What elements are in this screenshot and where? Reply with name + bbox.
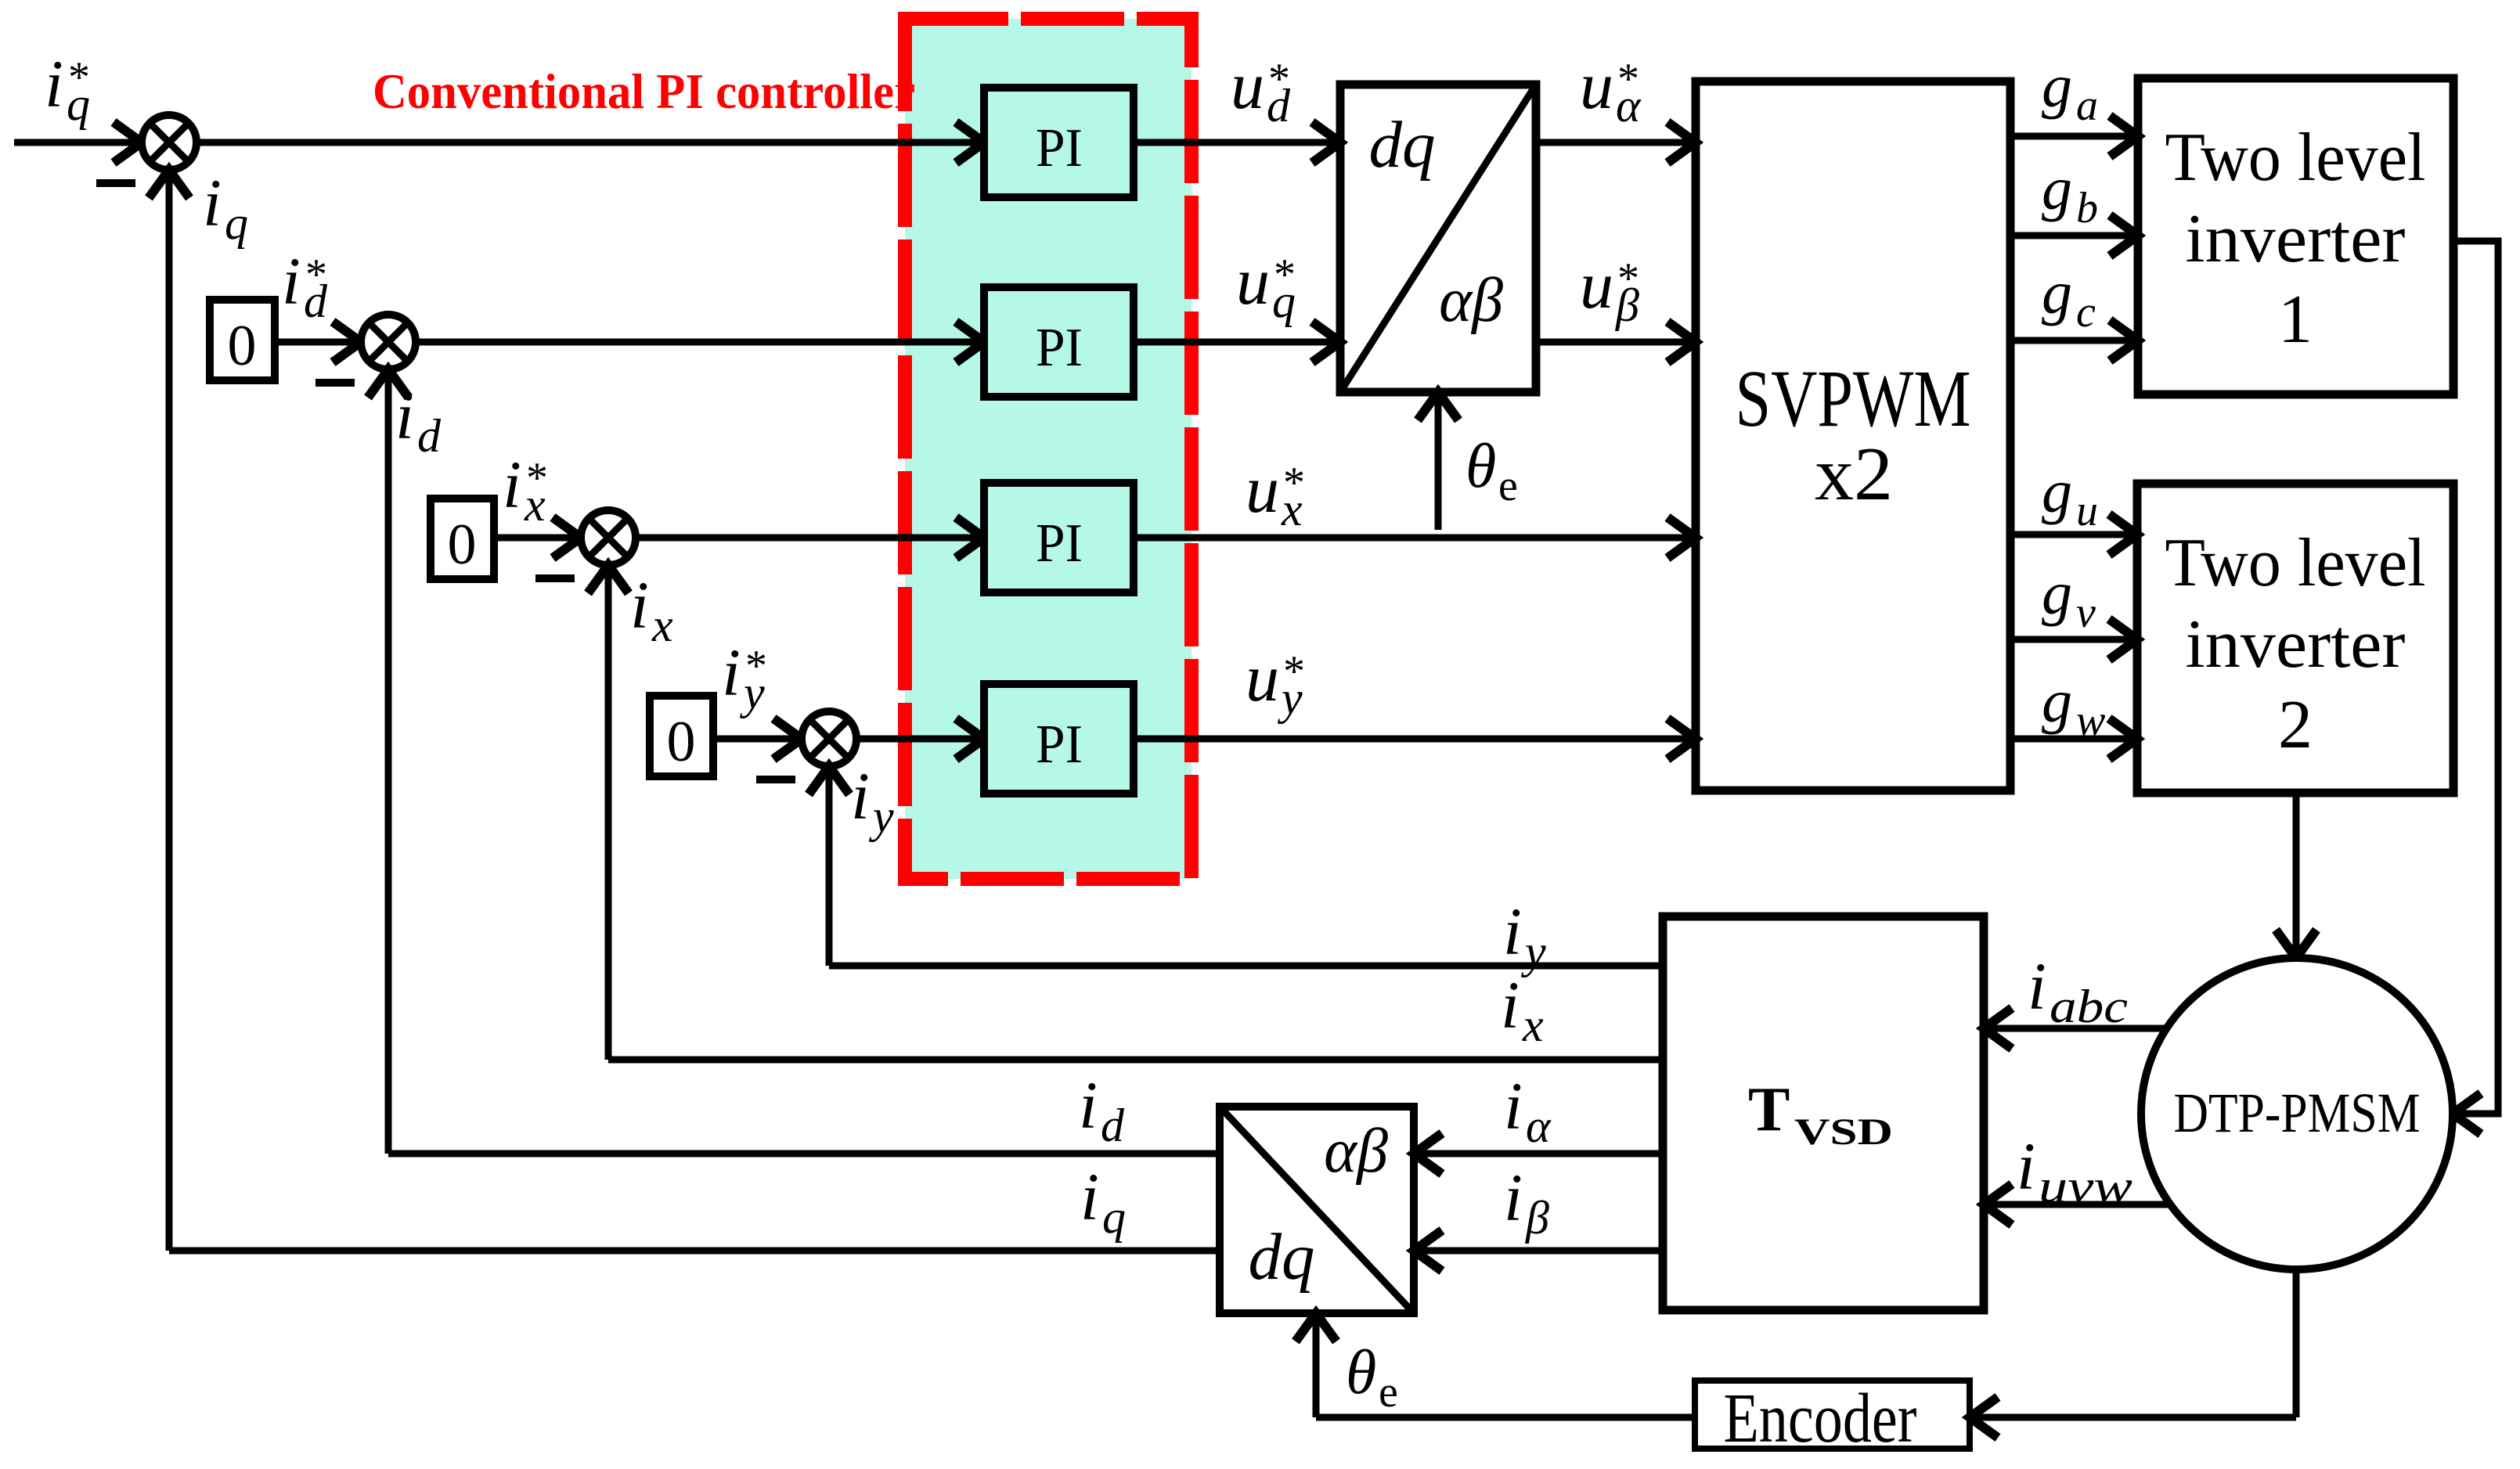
svg-text:g: g (2042, 667, 2072, 735)
arrowhead uy* into SVPWM (1667, 718, 1696, 759)
svg-text:x2: x2 (1815, 432, 1893, 517)
wire ix feedback vertical (605, 565, 612, 1060)
label ux* (1246, 452, 1305, 535)
label uy* (1246, 640, 1305, 724)
svg-text:αβ: αβ (1439, 266, 1503, 335)
text T VSD (1748, 1075, 1893, 1153)
diagonal of dq block (1340, 85, 1536, 392)
svg-text:dq: dq (1369, 108, 1436, 182)
wire encoder to theta-e riser (1316, 1414, 1695, 1421)
svg-text:u: u (1246, 452, 1279, 527)
SVPWM x2 block (1696, 81, 2010, 790)
wire S3 to PI3 (636, 535, 984, 542)
conventional PI controller region (teal box, red dashed border) (905, 19, 1192, 879)
label ibeta (1504, 1160, 1549, 1244)
arrowhead gc into inverter 1 (2110, 320, 2138, 361)
arrowhead ud* into dq block (1312, 122, 1340, 163)
arrowhead ubeta* into SVPWM (1667, 322, 1696, 362)
wire iq* input (14, 139, 142, 146)
arrowhead into S4 (773, 718, 802, 759)
svg-text:g: g (2042, 52, 2072, 120)
svg-text:a: a (2076, 81, 2098, 130)
svg-text:α: α (1526, 1100, 1552, 1152)
svg-text:i: i (1079, 1068, 1098, 1143)
label ialpha (1504, 1068, 1552, 1152)
svg-text:b: b (2076, 184, 2098, 232)
svg-text:d: d (1101, 1100, 1125, 1151)
arrowhead into PI1 (956, 122, 984, 163)
label ga (2042, 52, 2098, 130)
summing junction S3 (x axis) (581, 510, 636, 565)
DTP-PMSM machine circle (2141, 958, 2453, 1269)
label ix (TVSD out) (1501, 967, 1544, 1051)
alpha-beta to dq transform block (1220, 1107, 1414, 1313)
svg-text:i: i (2017, 1129, 2035, 1204)
svg-text:g: g (2042, 154, 2072, 222)
svg-text:β: β (1525, 1192, 1549, 1244)
arrowhead ialpha into ab-dq block (1414, 1133, 1442, 1174)
summing junction S2 (d axis) (361, 315, 416, 369)
wire S2 to PI2 (416, 339, 984, 346)
svg-text:y: y (739, 667, 765, 718)
svg-text:dq: dq (1249, 1220, 1315, 1294)
svg-text:i: i (395, 378, 414, 453)
arrowhead into PI3 (956, 517, 984, 558)
svg-text:i: i (1503, 894, 1522, 969)
label gb (2042, 154, 2098, 232)
label ix feedback (630, 567, 673, 651)
label gv (2042, 559, 2096, 637)
svg-text:w: w (2076, 697, 2105, 745)
wire iq ab-dq block to feedback vertical (169, 1248, 1220, 1255)
label uq* (1236, 243, 1296, 327)
wire PI4 to SVPWM (uy*) (1134, 736, 1696, 743)
PI controller block PI3 (984, 483, 1134, 592)
svg-text:i: i (1080, 1159, 1099, 1234)
wire inverter 1 output feedback (right side, down to motor) (2453, 241, 2498, 1114)
svg-text:αβ: αβ (1324, 1117, 1388, 1186)
wire gb SVPWM to inverter 1 (2010, 232, 2138, 239)
svg-text:i: i (1501, 967, 1520, 1042)
svg-text:PI: PI (1036, 118, 1083, 178)
svg-text:v: v (2076, 589, 2096, 637)
wire theta-e riser to ab-dq block (1313, 1313, 1320, 1417)
wire iy feedback vertical (826, 766, 833, 966)
svg-text:e: e (1379, 1368, 1398, 1417)
svg-text:i: i (630, 567, 649, 643)
label gc (2042, 258, 2096, 337)
svg-text:i: i (2028, 949, 2046, 1024)
arrowhead uq* into dq block (1312, 322, 1340, 362)
wire gc SVPWM to inverter 1 (2010, 337, 2138, 344)
wire PI3 to SVPWM (ux*) (1134, 535, 1696, 542)
svg-text:VSD: VSD (1794, 1111, 1893, 1153)
svg-text:1: 1 (2278, 282, 2313, 358)
diagonal of ab-dq block (1220, 1107, 1414, 1313)
svg-text:u: u (1246, 640, 1279, 715)
wire iq feedback vertical (166, 170, 173, 1251)
arrowhead theta-e into dq block (1418, 392, 1458, 420)
label iy (TVSD out) (1503, 894, 1546, 978)
label theta-e (bottom) (1346, 1338, 1398, 1417)
label id feedback (395, 378, 442, 462)
svg-text:q: q (1102, 1191, 1126, 1243)
label theta-e (top) (1465, 432, 1518, 510)
wire S4 to PI4 (856, 736, 984, 743)
arrowhead id into S2 (368, 369, 409, 398)
label ualpha* (1580, 48, 1642, 131)
arrowhead ualpha* into SVPWM (1667, 122, 1696, 163)
two level inverter 2 block (2137, 484, 2453, 793)
svg-text:PI: PI (1036, 513, 1083, 574)
wire id feedback vertical (385, 369, 392, 1154)
svg-text:i: i (282, 243, 301, 319)
arrowhead ga into inverter 1 (2110, 116, 2138, 157)
arrowhead ix into S3 (588, 565, 629, 593)
wire ibeta TVSD to ab-dq block (1414, 1248, 1663, 1255)
svg-text:Conventional PI controller: Conventional PI controller (373, 63, 915, 119)
arrowhead ibeta into ab-dq block (1414, 1230, 1442, 1271)
wire dq block to SVPWM (ualpha*) (1536, 139, 1696, 146)
svg-text:y: y (868, 790, 894, 842)
svg-text:i: i (722, 635, 741, 710)
wire 0-box to S4 (713, 736, 802, 743)
svg-text:x: x (1281, 484, 1303, 535)
svg-text:inverter: inverter (2186, 607, 2406, 682)
summing junction S1 (q axis) (142, 115, 196, 170)
svg-text:g: g (2042, 258, 2072, 326)
svg-text:g: g (2042, 457, 2072, 525)
wire ialpha TVSD to ab-dq block (1414, 1150, 1663, 1158)
svg-text:g: g (2042, 559, 2072, 627)
svg-text:inverter: inverter (2186, 201, 2406, 277)
svg-text:u: u (1580, 48, 1613, 123)
arrowhead iq into S1 (149, 170, 189, 198)
svg-text:i: i (45, 46, 63, 121)
label id (out) (1079, 1068, 1125, 1151)
arrowhead gw into inverter 2 (2109, 718, 2137, 759)
label id* reference (282, 243, 328, 327)
arrowhead gu into inverter 2 (2109, 514, 2137, 555)
arrowhead into PI2 (956, 322, 984, 362)
label gw (2042, 667, 2105, 745)
wire iy TVSD to S4 feedback (829, 963, 1663, 970)
label iabc (2028, 949, 2128, 1032)
wire motor bottom to encoder row (2293, 1269, 2300, 1417)
label iuvw (2017, 1129, 2132, 1212)
svg-text:θ: θ (1465, 432, 1496, 501)
svg-text:x: x (651, 599, 673, 651)
svg-text:x: x (524, 479, 546, 531)
svg-text:u: u (2076, 487, 2098, 535)
wire dq block to SVPWM (ubeta*) (1536, 339, 1696, 346)
wire ga SVPWM to inverter 1 (2010, 133, 2138, 140)
minus sign at S2 (315, 379, 355, 387)
svg-text:u: u (1236, 243, 1270, 319)
arrowhead ux* into SVPWM (1667, 517, 1696, 558)
svg-text:uvw: uvw (2039, 1161, 2132, 1212)
wire id ab-dq block to feedback vertical (388, 1150, 1220, 1158)
arrowhead iy into S4 (809, 766, 849, 794)
svg-text:0: 0 (667, 710, 696, 774)
label ix* reference (503, 447, 548, 531)
wire 0-box to S3 (494, 535, 581, 542)
svg-text:i: i (1504, 1068, 1523, 1143)
wire ix TVSD to S3 feedback (608, 1057, 1663, 1064)
arrowhead into S1 (114, 122, 142, 163)
wire gv SVPWM to inverter 2 (2010, 636, 2137, 643)
summing junction S4 (y axis) (802, 711, 856, 766)
svg-text:u: u (1231, 48, 1264, 123)
svg-text:e: e (1498, 462, 1518, 510)
TVSD transform block (1663, 916, 1984, 1310)
label iy* reference (722, 635, 767, 718)
PI controller block PI1 (984, 88, 1134, 197)
arrowhead into motor top (2276, 930, 2316, 958)
arrowhead into PI4 (956, 718, 984, 759)
svg-text:i: i (1504, 1160, 1523, 1235)
svg-text:T: T (1748, 1075, 1790, 1144)
minus sign at S4 (756, 776, 795, 783)
wire motor to encoder (1970, 1414, 2296, 1421)
svg-text:y: y (1277, 672, 1303, 724)
zero reference box (y axis) (650, 696, 713, 776)
wire gu SVPWM to inverter 2 (2010, 531, 2137, 538)
svg-text:q: q (67, 78, 90, 130)
svg-text:d: d (304, 275, 328, 327)
wire iabc motor to TVSD (1984, 1025, 2168, 1032)
arrowhead into S3 (553, 517, 581, 558)
label iq* reference (45, 46, 90, 130)
encoder block (1695, 1381, 1970, 1449)
wire PI2 to dq block (1134, 339, 1340, 346)
wire gw SVPWM to inverter 2 (2010, 736, 2137, 743)
arrowhead iabc into TVSD (1984, 1008, 2012, 1049)
label ubeta* (1580, 247, 1639, 331)
label gu (2042, 457, 2098, 535)
label iq (out) (1080, 1159, 1126, 1243)
arrowhead gv into inverter 2 (2109, 619, 2137, 660)
label iy feedback (851, 758, 894, 842)
arrowhead into encoder (1970, 1397, 1998, 1438)
svg-text:0: 0 (448, 513, 477, 577)
svg-text:q: q (225, 197, 248, 249)
svg-text:PI: PI (1036, 318, 1083, 378)
wire PI1 to dq block (1134, 139, 1340, 146)
svg-text:x: x (1522, 999, 1544, 1051)
svg-text:i: i (503, 447, 521, 522)
arrowhead iuvw into TVSD (1984, 1184, 2012, 1225)
svg-text:d: d (417, 410, 442, 462)
two level inverter 1 block (2138, 78, 2453, 394)
arrowhead into S2 (333, 322, 361, 362)
svg-text:d: d (1267, 80, 1291, 131)
wire inverter 2 down to motor (2293, 793, 2300, 958)
wire theta-e into dq block (1435, 392, 1442, 530)
dq to alpha-beta transform block (1340, 85, 1536, 392)
svg-text:Two level: Two level (2165, 120, 2426, 196)
svg-text:i: i (203, 165, 222, 240)
svg-text:PI: PI (1036, 715, 1083, 775)
text Two level inverter 2 (2165, 525, 2426, 763)
svg-text:0: 0 (228, 314, 257, 378)
label ud* (1231, 48, 1291, 131)
text Two level inverter 1 (2165, 120, 2426, 358)
svg-text:β: β (1615, 279, 1639, 331)
arrowhead into motor right (2453, 1093, 2481, 1134)
minus sign at S3 (535, 574, 575, 582)
PI controller block PI2 (984, 287, 1134, 397)
svg-text:α: α (1616, 80, 1642, 131)
svg-text:DTP-PMSM: DTP-PMSM (2174, 1082, 2421, 1144)
arrowhead theta-e into ab-dq block (1296, 1313, 1336, 1341)
wire S1 to PI1 (196, 139, 984, 146)
minus sign at S1 (96, 179, 135, 187)
svg-text:SVPWM: SVPWM (1736, 354, 1971, 444)
arrowhead gb into inverter 1 (2110, 215, 2138, 256)
svg-text:q: q (1272, 275, 1296, 327)
svg-text:Two level: Two level (2165, 525, 2426, 601)
svg-text:i: i (851, 758, 870, 834)
svg-text:2: 2 (2278, 687, 2313, 763)
svg-text:abc: abc (2050, 981, 2128, 1032)
wire iuvw motor to TVSD (1984, 1201, 2172, 1208)
svg-text:u: u (1580, 247, 1613, 322)
svg-text:c: c (2076, 288, 2096, 337)
zero reference box (x axis) (431, 499, 494, 579)
PI controller block PI4 (984, 684, 1134, 794)
wire 0-box to S2 (275, 339, 361, 346)
label iq feedback (203, 165, 248, 249)
svg-text:θ: θ (1346, 1338, 1376, 1407)
zero reference box (d axis) (210, 300, 275, 380)
svg-text:Encoder: Encoder (1724, 1380, 1917, 1457)
svg-text:y: y (1520, 926, 1546, 978)
